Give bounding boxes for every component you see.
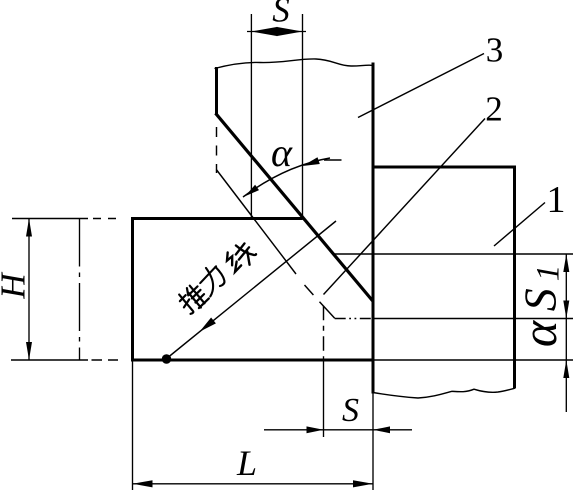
H dimension arrow up [26,219,32,237]
svg-text:2: 2 [485,90,503,129]
S dimension arrow right [277,27,303,36]
svg-text:3: 3 [486,31,504,70]
L dimension line [133,483,374,485]
S dimension arrow left [251,27,277,36]
member 3 left edge hidden (dashed) [216,127,218,173]
notch bottom line right extension [373,318,573,320]
thrust line anchor dot [162,354,172,364]
S bottom arrow pointing right [307,426,324,433]
S extension line left [250,14,252,218]
chord bottom edge thin extension [11,359,88,361]
S dimension line [247,31,306,33]
S bottom tail right [373,429,412,431]
alpha gap arrow up [563,360,569,378]
H dimension line [28,219,30,361]
chord bottom line right extension [375,359,574,361]
S extension line right [302,14,304,219]
chord bottom edge dash segments [92,359,119,361]
S1 dimension line [565,254,567,319]
alpha arc [243,158,330,197]
svg-text:L: L [236,443,257,483]
svg-text:S: S [272,0,290,30]
S1 arrow down [563,301,569,319]
upper notch line (right) [334,253,573,255]
L arrow right [353,480,373,487]
S1 label [515,265,567,312]
chord top edge [131,217,303,220]
member 1 bottom break line [373,388,516,398]
alpha arc right tail [324,159,342,161]
thick diagonal (bearing face of notch) [216,113,374,301]
thrust-line label char 推 [176,282,210,316]
chord top edge dash segments [93,218,118,220]
member 3 top break line [215,59,375,69]
H dimension arrow down [26,342,32,360]
L extension line right [372,394,374,491]
notch corner hidden vertical (dashed) [323,306,325,357]
alpha arc left arrowhead [245,185,259,197]
thrust line arrowhead [200,318,216,332]
member 3 lower edge inside notch [216,170,296,275]
S bottom extension line [323,357,325,438]
member 3 left edge [215,67,218,115]
L extension line left [132,362,134,491]
alpha gap dimension line [565,319,567,361]
member 3 lower edge hidden dash 1 [305,285,314,295]
thrust line [166,221,336,359]
leader line 3 [358,54,484,118]
alpha right label [511,319,567,347]
S bottom arrow pointing left [373,426,390,433]
svg-text:H: H [0,272,33,300]
S bottom dimension line left part [264,429,373,431]
svg-text:α: α [271,130,293,175]
svg-text:α: α [511,319,567,347]
S1 arrow up [563,254,569,272]
notch bottom hidden line (dash-dot-dot) [335,318,373,320]
leader line 1 [494,203,545,247]
member 3 / shared right edge [372,63,375,394]
svg-text:1: 1 [547,179,566,221]
alpha gap lower arrow (outside) [565,360,567,412]
chord left edge [131,217,134,362]
alpha arc right arrowhead [303,157,320,166]
member 1 top edge [372,166,517,169]
leader line 2 [324,119,486,295]
L arrow left [133,480,153,487]
chord bottom edge [131,359,375,362]
chord break centerline (dash-dot) [79,219,81,361]
member 1 right edge [513,166,516,389]
thrust-line label char 力 [194,262,228,296]
svg-text:S: S [342,392,359,429]
thrust-line label char 线 [222,239,258,275]
member 3 lower edge hidden dash 2 [320,302,335,319]
chord top edge thin extension [12,218,88,220]
